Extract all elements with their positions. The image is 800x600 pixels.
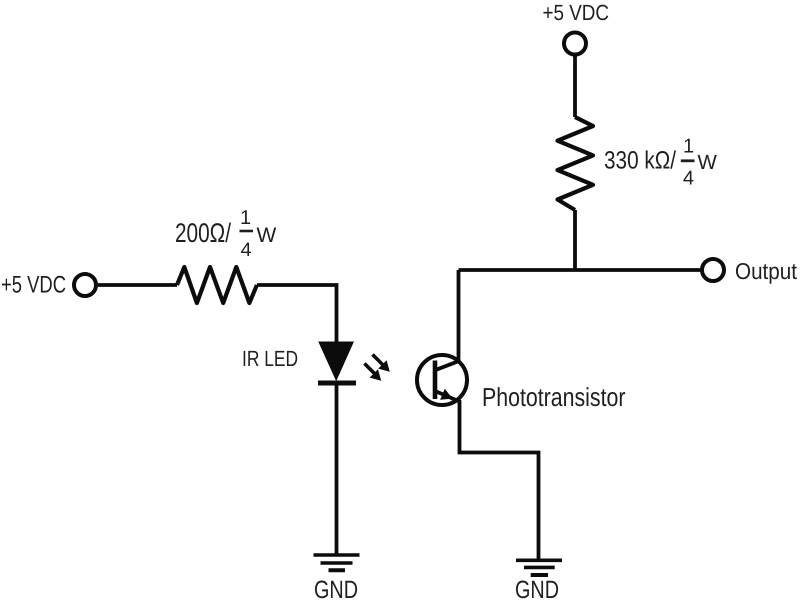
wire from LED cathode down to left ground — [335, 385, 339, 554]
wire from R2 down to output node — [573, 210, 577, 270]
wire from node down to phototransistor collector — [436, 270, 459, 370]
phototransistor Q1 emitter arrowhead — [440, 389, 452, 400]
svg-text:Phototransistor: Phototransistor — [482, 382, 626, 412]
resistor R1 200 ohm zigzag — [177, 267, 257, 303]
svg-text:GND: GND — [314, 576, 358, 600]
svg-text:4: 4 — [241, 239, 252, 261]
svg-text:Output: Output — [735, 258, 798, 284]
svg-text:330 kΩ/: 330 kΩ/ — [604, 147, 676, 175]
svg-text:IR LED: IR LED — [242, 346, 298, 371]
R1 fraction bar — [240, 230, 254, 233]
LED D1 anode triangle — [319, 342, 353, 380]
power terminal +5VDC top — [564, 33, 586, 55]
svg-text:+5 VDC: +5 VDC — [1, 272, 66, 299]
wire from +5VDC terminal to R1 — [98, 283, 177, 287]
ground symbol right — [516, 560, 562, 575]
svg-text:GND: GND — [515, 576, 559, 600]
svg-text:W: W — [698, 151, 718, 174]
svg-text:1: 1 — [240, 207, 251, 229]
phototransistor Q1 base bar — [433, 361, 438, 400]
svg-text:4: 4 — [683, 168, 694, 190]
output terminal circle — [702, 259, 724, 281]
resistor R2 330k zigzag — [558, 117, 594, 210]
svg-text:1: 1 — [683, 136, 694, 158]
wire from R1 to LED corner — [257, 285, 337, 343]
wire output node horizontal — [459, 268, 701, 272]
svg-text:W: W — [257, 224, 277, 247]
svg-text:200Ω/: 200Ω/ — [175, 218, 231, 248]
phototransistor Q1 body circle — [417, 355, 467, 405]
light emission arrow 2 — [365, 364, 382, 381]
light emission arrow 1 — [373, 355, 390, 372]
svg-text:+5 VDC: +5 VDC — [543, 0, 610, 25]
ground symbol left — [314, 555, 360, 570]
wire from top terminal to R2 — [573, 55, 577, 117]
phototransistor Q1 emitter with wire to ground jog — [435, 391, 539, 559]
LED D1 cathode bar — [318, 381, 356, 386]
R2 fraction bar — [681, 159, 695, 162]
power terminal +5VDC left — [74, 274, 96, 296]
